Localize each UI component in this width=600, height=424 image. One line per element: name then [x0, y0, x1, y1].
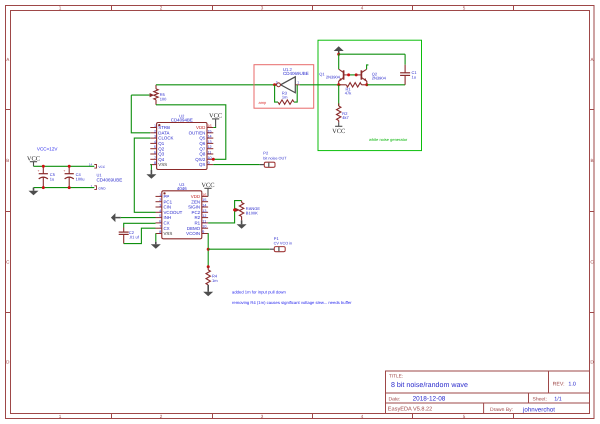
- svg-text:OUT/EN: OUT/EN: [189, 130, 206, 135]
- svg-text:14: 14: [208, 134, 212, 139]
- svg-text:4: 4: [361, 5, 364, 10]
- ground (U3 VSS): [155, 233, 157, 235]
- svg-text:CX: CX: [164, 226, 170, 231]
- svg-text:2018-12-08: 2018-12-08: [413, 395, 446, 403]
- svg-text:VDD: VDD: [196, 125, 205, 130]
- junction: [347, 73, 350, 76]
- wire: [207, 234, 209, 267]
- svg-text:10: 10: [208, 155, 212, 160]
- svg-text:PC2: PC2: [192, 210, 201, 215]
- wire: [300, 84, 341, 86]
- svg-text:2: 2: [160, 414, 163, 419]
- svg-text:C2: C2: [129, 230, 134, 235]
- junction: [68, 165, 71, 168]
- power flag VCC (U3 VDD): [207, 188, 209, 196]
- junction: [207, 248, 210, 251]
- svg-text:B100K: B100K: [246, 211, 258, 216]
- svg-text:5: 5: [463, 414, 466, 419]
- svg-text:2: 2: [159, 198, 161, 203]
- wire: [339, 53, 405, 55]
- svg-text:8: 8: [159, 230, 161, 235]
- svg-text:1m: 1m: [282, 95, 288, 100]
- svg-text:PC1: PC1: [164, 199, 173, 204]
- junction: [233, 208, 236, 211]
- junction: [207, 265, 210, 268]
- svg-text:VCC: VCC: [27, 155, 40, 162]
- svg-text:4: 4: [361, 414, 364, 419]
- svg-text:Q5: Q5: [199, 136, 205, 141]
- wire: [131, 95, 150, 133]
- ground (flipped, noise generator): [338, 51, 340, 54]
- svg-text:15: 15: [208, 129, 212, 134]
- svg-text:QS: QS: [199, 162, 205, 167]
- svg-text:QS/2: QS/2: [195, 157, 205, 162]
- svg-text:Q6: Q6: [199, 141, 205, 146]
- svg-text:6: 6: [154, 150, 156, 155]
- svg-text:SIGIN: SIGIN: [188, 205, 200, 210]
- junction: [212, 158, 215, 161]
- svg-text:4k7: 4k7: [342, 116, 349, 121]
- svg-text:14: 14: [202, 203, 206, 208]
- svg-text:Drawn By:: Drawn By:: [490, 407, 513, 413]
- wire: [131, 94, 149, 96]
- svg-text:bit noise OUT: bit noise OUT: [263, 156, 286, 161]
- IC U3 4046: [162, 191, 202, 239]
- resistor R2 4k7: [338, 85, 340, 106]
- svg-text:REV:: REV:: [553, 382, 565, 388]
- ground: [33, 188, 35, 191]
- svg-text:U1: U1: [97, 173, 102, 178]
- junction: [42, 186, 45, 189]
- svg-text:C5: C5: [50, 172, 55, 177]
- svg-text:1u: 1u: [412, 75, 416, 80]
- wire: [34, 165, 95, 167]
- svg-text:B: B: [6, 158, 9, 163]
- svg-text:VSS: VSS: [158, 162, 167, 167]
- ground (RANGE): [241, 220, 243, 224]
- svg-text:3: 3: [159, 203, 161, 208]
- junction: [337, 53, 340, 56]
- svg-text:VSS: VSS: [164, 231, 173, 236]
- svg-text:1: 1: [59, 414, 62, 419]
- svg-text:A: A: [590, 57, 594, 62]
- wire: [124, 228, 156, 243]
- svg-text:C4: C4: [76, 172, 81, 177]
- svg-text:9: 9: [208, 161, 210, 166]
- junction: [355, 73, 358, 76]
- svg-text:GND: GND: [98, 187, 105, 191]
- annotation box amp: [254, 65, 314, 109]
- ground (R4): [207, 285, 209, 292]
- capacitor C2 .01 uf: [124, 223, 156, 227]
- svg-text:STRB: STRB: [158, 125, 170, 130]
- svg-text:1: 1: [297, 81, 299, 85]
- svg-text:CLOCK: CLOCK: [158, 136, 173, 141]
- svg-text:14: 14: [89, 163, 93, 167]
- svg-text:16: 16: [202, 192, 206, 197]
- svg-text:PP: PP: [164, 194, 170, 199]
- wire: [213, 164, 259, 166]
- svg-text:2: 2: [276, 81, 278, 85]
- svg-text:5: 5: [463, 5, 466, 10]
- svg-text:CD4094BE: CD4094BE: [171, 117, 193, 122]
- svg-text:1m: 1m: [212, 278, 218, 283]
- svg-text:DEMO: DEMO: [187, 226, 200, 231]
- svg-text:CX: CX: [164, 221, 170, 226]
- svg-text:47k: 47k: [345, 91, 352, 96]
- svg-text:8 bit noise/random wave: 8 bit noise/random wave: [391, 381, 468, 389]
- ground (INH, left): [121, 217, 156, 219]
- svg-text:6: 6: [159, 219, 161, 224]
- svg-text:A: A: [6, 57, 10, 62]
- svg-text:7: 7: [154, 155, 156, 160]
- svg-text:2: 2: [160, 5, 163, 10]
- IC U1 CD4069UBE power pins: [94, 165, 96, 169]
- svg-text:12: 12: [202, 214, 206, 219]
- svg-text:Date:: Date:: [389, 397, 401, 403]
- svg-text:+: +: [63, 170, 65, 174]
- svg-text:B: B: [590, 158, 593, 163]
- junction: [337, 83, 340, 86]
- connector P2 bit noise OUT: [260, 164, 267, 166]
- svg-text:added 1m for input pull down: added 1m for input pull down: [232, 290, 286, 295]
- transistor Q2 2N3904: [360, 70, 362, 79]
- power flag VCC (supply): [33, 162, 35, 167]
- potentiometer RANGE B100K: [208, 201, 242, 223]
- svg-text:5: 5: [159, 214, 161, 219]
- wire: [213, 126, 215, 129]
- svg-text:C: C: [6, 259, 10, 264]
- svg-text:TITLE:: TITLE:: [389, 373, 403, 379]
- wire: [156, 105, 226, 160]
- svg-text:Q3: Q3: [158, 152, 164, 157]
- junction: [68, 186, 71, 189]
- svg-text:Sheet:: Sheet:: [533, 396, 547, 402]
- wire: [208, 248, 270, 250]
- svg-text:P1: P1: [274, 236, 279, 241]
- svg-text:15: 15: [202, 198, 206, 203]
- svg-text:R2: R2: [194, 215, 200, 220]
- svg-text:R1: R1: [194, 221, 200, 226]
- svg-text:D: D: [6, 359, 10, 364]
- svg-text:11: 11: [208, 150, 212, 155]
- svg-text:Q1: Q1: [158, 141, 164, 146]
- svg-text:4046: 4046: [177, 186, 187, 191]
- wire: [156, 84, 277, 86]
- junction: [273, 83, 276, 86]
- svg-text:2: 2: [154, 129, 156, 134]
- resistor R1 47k: [339, 84, 347, 86]
- wire: [34, 187, 95, 189]
- wire: [349, 74, 357, 76]
- svg-text:VCOOUT: VCOOUT: [164, 210, 183, 215]
- svg-text:9: 9: [202, 230, 204, 235]
- connector P1 CV VCO in: [270, 248, 277, 250]
- svg-text:1: 1: [154, 124, 156, 129]
- svg-text:100: 100: [160, 97, 167, 102]
- svg-text:white noise generator: white noise generator: [369, 138, 408, 143]
- svg-text:1u: 1u: [50, 177, 54, 182]
- svg-text:VCOIN: VCOIN: [186, 231, 200, 236]
- resistor R4 1m: [207, 267, 209, 270]
- capacitor C4: [68, 166, 70, 173]
- svg-text:CIN: CIN: [164, 205, 172, 210]
- svg-text:C: C: [590, 259, 594, 264]
- svg-text:Q7: Q7: [199, 146, 205, 151]
- junction: [365, 83, 368, 86]
- svg-text:11: 11: [202, 219, 206, 224]
- svg-text:4: 4: [154, 139, 156, 144]
- svg-text:1/1: 1/1: [554, 396, 562, 402]
- svg-text:johnverchot: johnverchot: [523, 406, 556, 413]
- capacitor C1 1u: [404, 54, 406, 64]
- power flag VCC (flipped, below R2): [338, 122, 340, 126]
- wire: [367, 84, 405, 86]
- svg-text:VCC: VCC: [332, 127, 345, 134]
- svg-text:CV VCO in: CV VCO in: [274, 241, 293, 246]
- svg-text:.01 uf: .01 uf: [129, 235, 139, 240]
- capacitor C5: [42, 166, 44, 173]
- svg-text:R5: R5: [160, 93, 165, 98]
- svg-text:7: 7: [159, 224, 161, 229]
- svg-text:RANGE: RANGE: [246, 207, 260, 212]
- svg-text:EasyEDA V5.8.22: EasyEDA V5.8.22: [388, 406, 432, 412]
- svg-text:D: D: [590, 359, 594, 364]
- svg-text:INH: INH: [164, 215, 172, 220]
- svg-text:+: +: [38, 170, 40, 174]
- svg-text:10: 10: [202, 224, 206, 229]
- svg-text:P2: P2: [263, 151, 268, 156]
- svg-text:Q1: Q1: [319, 72, 325, 77]
- svg-text:16: 16: [208, 124, 212, 129]
- transistor Q1 2N3904: [343, 70, 345, 79]
- svg-text:5: 5: [154, 145, 156, 150]
- svg-text:VCC: VCC: [201, 182, 214, 189]
- svg-text:CD4069UBE: CD4069UBE: [97, 178, 123, 183]
- power flag VCC (U2 VDD): [215, 119, 217, 127]
- svg-text:Q4: Q4: [158, 157, 164, 162]
- svg-text:100u: 100u: [76, 177, 85, 182]
- svg-text:removing R4 (1m) causes signif: removing R4 (1m) causes significant volt…: [232, 300, 352, 305]
- svg-text:1: 1: [159, 192, 161, 197]
- svg-text:2N3904: 2N3904: [326, 75, 340, 80]
- resistor R3 1m: [275, 85, 278, 102]
- svg-text:Q8: Q8: [199, 152, 205, 157]
- svg-text:1: 1: [59, 5, 62, 10]
- potentiometer R5 100: [155, 85, 157, 89]
- svg-text:8: 8: [154, 161, 156, 166]
- ground (U2 VSS): [150, 164, 151, 166]
- svg-text:Q2: Q2: [158, 146, 164, 151]
- svg-text:12: 12: [208, 145, 212, 150]
- svg-text:ZEN: ZEN: [191, 199, 200, 204]
- svg-text:VDD: VDD: [191, 194, 200, 199]
- svg-text:CD4069UBE: CD4069UBE: [283, 71, 309, 76]
- annotation box white noise generator: [318, 40, 422, 150]
- svg-text:3: 3: [154, 134, 156, 139]
- svg-text:3: 3: [261, 5, 264, 10]
- svg-text:13: 13: [208, 139, 212, 144]
- svg-text:4: 4: [159, 208, 161, 213]
- svg-text:3: 3: [261, 414, 264, 419]
- wire: [338, 54, 340, 69]
- svg-text:1.0: 1.0: [568, 381, 576, 387]
- junction: [42, 165, 45, 168]
- svg-text:13: 13: [202, 208, 206, 213]
- svg-text:VCC=12V: VCC=12V: [37, 146, 58, 151]
- svg-text:VCC: VCC: [98, 166, 105, 170]
- IC U2 CD4094BE: [157, 123, 207, 170]
- svg-text:amp: amp: [259, 101, 267, 106]
- svg-text:2N3904: 2N3904: [372, 76, 386, 81]
- wire: [134, 138, 155, 212]
- svg-text:VCC: VCC: [209, 112, 222, 119]
- svg-text:DATA: DATA: [158, 130, 169, 135]
